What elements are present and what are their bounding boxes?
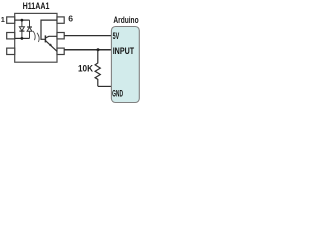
- svg-text:1: 1: [1, 15, 5, 24]
- wire 5V from pin5 to Arduino: [64, 35, 112, 37]
- svg-text:GND: GND: [112, 89, 123, 99]
- wire INPUT from pin4 to Arduino: [64, 49, 112, 51]
- svg-text:H11AA1: H11AA1: [23, 1, 50, 12]
- svg-text:5V: 5V: [113, 31, 120, 41]
- pin 1 box: [7, 17, 15, 23]
- pin 3 box: [7, 48, 15, 54]
- svg-text:6: 6: [68, 14, 73, 24]
- resistor R1 10K: [95, 50, 100, 87]
- node junction dot bottom: [21, 37, 24, 40]
- transistor Q1 collector to pin5: [45, 36, 57, 38]
- wire GND to Arduino: [98, 85, 112, 87]
- diode D2 (LED, pointing up, anti-parallel): [27, 27, 32, 31]
- transistor Q1 emitter to pin4: [45, 41, 57, 52]
- transistor Q1 base bar: [44, 35, 46, 42]
- pin 2 box: [7, 33, 15, 39]
- pin 6 box: [57, 17, 64, 23]
- svg-text:INPUT: INPUT: [113, 46, 135, 56]
- Arduino block box: [111, 27, 139, 103]
- wire right diode rail: [29, 20, 31, 38]
- node junction dot top: [21, 19, 24, 22]
- wire base from pin6: [41, 20, 57, 39]
- light coupling arrow 1: [33, 31, 35, 40]
- node junction dot resistor tap: [97, 48, 100, 51]
- wire anode top from pin1: [15, 19, 30, 21]
- pin 4 box: [57, 48, 64, 54]
- transistor Q1 emitter arrowhead: [49, 43, 52, 47]
- pin 5 box: [57, 33, 64, 39]
- svg-text:Arduino: Arduino: [113, 15, 138, 25]
- diode D1 (LED, pointing down): [19, 27, 24, 31]
- wire left diode rail: [21, 20, 23, 38]
- svg-text:10K: 10K: [78, 64, 93, 74]
- wire cathode bottom to pin2: [15, 37, 30, 39]
- optocoupler U1 H11AA1 DIP-6 body: [15, 13, 57, 62]
- light coupling arrow 2: [37, 33, 39, 42]
